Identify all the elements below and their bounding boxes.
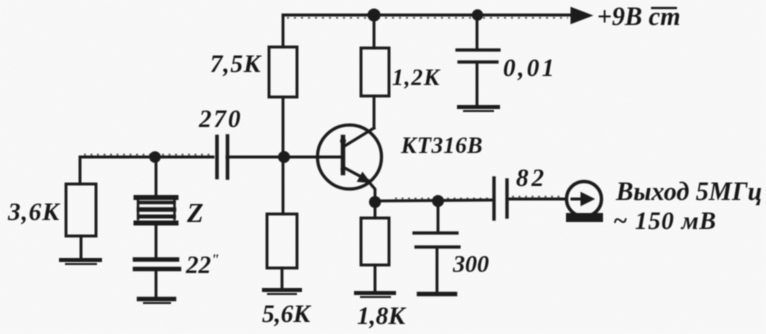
- wire 7,5K bottom to base node: [282, 97, 285, 157]
- ground under 22 cap: [139, 297, 174, 302]
- svg-text:~ 150 мВ: ~ 150 мВ: [613, 208, 717, 235]
- transistor Q1 KT316B: [318, 125, 382, 201]
- ground under 0,01: [459, 105, 498, 109]
- svg-text:+9В ст: +9В ст: [597, 2, 680, 31]
- resistor 1,2K: [361, 48, 389, 96]
- wire 5,6K to ground: [281, 268, 284, 288]
- wire 0,01 to ground: [476, 62, 479, 105]
- wire 300 cap to ground: [436, 247, 439, 292]
- ground under 5,6K: [264, 288, 300, 292]
- wire texture ticks base wire: [84, 154, 210, 156]
- svg-text:0,01: 0,01: [503, 55, 557, 82]
- wire crystal to 22 cap: [155, 225, 158, 257]
- wire collector to 1,2K: [373, 96, 376, 128]
- svg-text:Z: Z: [186, 198, 204, 228]
- capacitor 0,01: [457, 50, 499, 62]
- node supply junction at R 1,2K: [368, 9, 381, 22]
- connector output jack: [566, 182, 603, 223]
- node base junction: [278, 151, 290, 163]
- svg-text:Выход 5МГц: Выход 5МГц: [615, 177, 762, 206]
- node crystal junction: [149, 151, 161, 163]
- wire texture ticks top rail: [287, 17, 568, 19]
- wire texture ticks emitter wire: [395, 197, 490, 199]
- wire texture ticks output wire: [512, 196, 563, 198]
- svg-text:1,8К: 1,8К: [357, 303, 407, 330]
- ground under 1,8K: [356, 291, 394, 295]
- resistor 3,6K: [66, 184, 96, 236]
- wire 1,2K top lead: [373, 15, 376, 48]
- wire 1,8K to ground: [374, 265, 377, 291]
- wire base node to transistor base: [284, 156, 341, 159]
- wire emitter output line: [375, 200, 493, 201]
- capacitor 82: [494, 178, 566, 219]
- crystal Z: [136, 198, 176, 224]
- wire emitter to 1,8K: [374, 202, 377, 218]
- ground under 3,6K: [61, 258, 100, 262]
- svg-text:3,6К: 3,6К: [7, 199, 61, 226]
- capacitor 270: [217, 136, 284, 178]
- resistor 1,8K: [361, 218, 389, 265]
- wire crystal top lead: [155, 157, 158, 194]
- capacitor 300: [414, 233, 459, 247]
- wire 3,6K to ground: [80, 236, 83, 258]
- svg-text:5,6К: 5,6К: [262, 301, 312, 328]
- svg-text:270: 270: [198, 106, 243, 133]
- node emitter junction: [369, 196, 381, 208]
- wire top supply rail: [283, 15, 572, 47]
- ground under 300 cap: [419, 292, 455, 297]
- svg-text:300: 300: [452, 252, 489, 278]
- resistor 7,5K: [269, 47, 297, 97]
- svg-text:82: 82: [516, 165, 547, 192]
- wire 300 cap top lead: [437, 201, 440, 231]
- wire 0,01 top lead: [476, 15, 479, 49]
- wire 22 cap to ground: [155, 269, 158, 297]
- svg-text:7,5К: 7,5К: [210, 51, 263, 78]
- supply arrow: [571, 8, 592, 24]
- svg-text:КТ316В: КТ316В: [400, 133, 483, 158]
- wire input node line: [80, 157, 213, 184]
- node 300 cap junction: [432, 195, 444, 207]
- capacitor 22: [135, 260, 179, 270]
- node supply junction at C 0,01: [472, 9, 483, 20]
- resistor 5,6K: [267, 214, 297, 268]
- svg-text:1,2К: 1,2К: [392, 65, 441, 90]
- label +9B st macron: [651, 7, 677, 9]
- wire base node down to 5,6K: [282, 157, 285, 214]
